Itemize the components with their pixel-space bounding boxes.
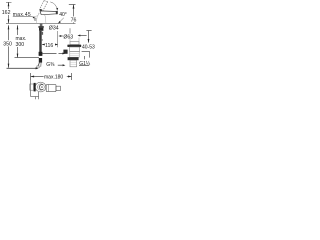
label 76 — [70, 16, 78, 22]
hose tips — [38, 63, 40, 67]
dim 162 arrowheads — [8, 2, 10, 23]
waste flange — [67, 45, 81, 47]
rod entry block — [63, 50, 67, 54]
dim 76 reference line — [69, 4, 76, 6]
svg-text:max.45: max.45 — [13, 12, 31, 18]
svg-text:300: 300 — [16, 42, 25, 48]
extension line right of 116 — [57, 31, 59, 47]
hose fitting upper — [39, 52, 43, 56]
knob extension lines — [30, 80, 32, 97]
bracket 40-53 — [82, 52, 90, 58]
dim max300 vertical — [17, 25, 19, 58]
svg-text:350: 350 — [3, 42, 12, 48]
dim 350 bottom extension — [7, 67, 37, 69]
faucet body — [36, 13, 46, 23]
svg-text:G⅜: G⅜ — [46, 62, 55, 68]
lever tip knob — [56, 11, 58, 14]
waste upper body — [70, 47, 80, 52]
deck line — [6, 23, 76, 25]
40 degree arc — [50, 2, 57, 10]
G3/8 leader arrow — [58, 64, 63, 66]
leader dia34 — [58, 18, 64, 23]
lever rear boss — [40, 9, 43, 11]
pop-up rod horizontal — [42, 53, 57, 55]
svg-text:Ø63: Ø63 — [63, 34, 73, 40]
waste cap — [70, 41, 79, 44]
rod piece end square — [56, 86, 60, 90]
knob skirt — [34, 83, 36, 92]
dim max180 — [30, 73, 32, 80]
svg-text:max.180: max.180 — [44, 74, 63, 80]
dim 116 — [42, 44, 44, 46]
svg-text:116: 116 — [45, 43, 53, 49]
label max300 — [15, 35, 26, 47]
knob inner ring — [38, 84, 45, 90]
ext line above waste cap left — [69, 28, 71, 33]
svg-text:40-53: 40-53 — [82, 45, 95, 51]
label 162 — [1, 9, 11, 15]
svg-text:162: 162 — [2, 10, 11, 16]
lower hose nut — [37, 66, 40, 68]
knob center — [39, 85, 43, 90]
svg-text:76: 76 — [71, 18, 77, 24]
waste cap extension lines — [69, 38, 71, 42]
rod piece body — [46, 84, 56, 91]
svg-text:40°: 40° — [59, 12, 67, 18]
spout with aerator — [34, 16, 37, 21]
dim max300 extension — [15, 57, 40, 59]
svg-text:Ø34: Ø34 — [49, 25, 59, 31]
washer — [38, 26, 43, 28]
label G1 1/4 underlined — [84, 56, 86, 59]
label dia63 — [60, 35, 63, 37]
rod guide bump — [42, 32, 43, 35]
waste tail thread — [70, 60, 77, 67]
knob escutcheon — [30, 84, 34, 90]
dim 350 vertical — [8, 25, 10, 68]
lever handle solid — [40, 11, 56, 15]
label 350 — [3, 40, 14, 46]
hose fitting lower — [39, 58, 42, 63]
lever raised dashed — [39, 1, 48, 11]
mounting nut — [39, 28, 43, 31]
waste mid body — [70, 52, 79, 58]
knob outer — [35, 82, 46, 92]
leader max.45 — [32, 17, 35, 19]
hose bundle — [39, 31, 41, 56]
waste locknut — [68, 57, 79, 60]
bundle tick — [42, 39, 43, 40]
shank below deck — [40, 24, 43, 27]
dim 162 vertical line — [6, 2, 12, 23]
dim 76 vertical — [73, 5, 75, 24]
dim arrow right of dia63 — [79, 35, 87, 37]
